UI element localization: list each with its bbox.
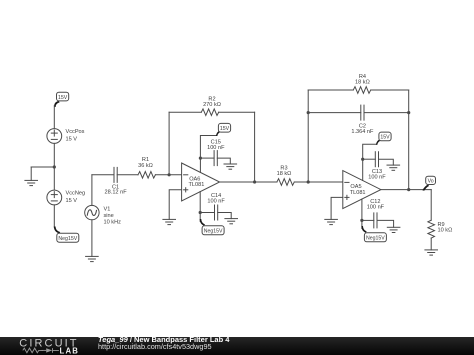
- wire R1 to OA6 inverting input: [155, 174, 181, 176]
- wire R2 right leg: [254, 112, 256, 182]
- wire to C14: [200, 212, 214, 214]
- op-amp OA5: [343, 171, 381, 209]
- voltage source V1 (sine): [85, 205, 99, 219]
- label R2 270 kOhm: [203, 96, 221, 108]
- ground (C12): [387, 227, 400, 232]
- svg-text:TL081: TL081: [350, 190, 366, 196]
- node junction (C2 right): [407, 111, 410, 114]
- ground (R9): [425, 250, 438, 255]
- wire V1 to C1: [92, 174, 114, 176]
- label R1 36 kOhm: [138, 157, 153, 169]
- svg-text:Neg15V: Neg15V: [58, 236, 77, 242]
- op-amp OA6: [182, 163, 220, 201]
- wire R4 right leg: [408, 90, 410, 190]
- svg-text:1.364 nF: 1.364 nF: [351, 129, 374, 135]
- wire to C12: [362, 219, 374, 221]
- ground (supply midpoint): [25, 167, 38, 186]
- capacitor C15: [214, 151, 217, 166]
- node junction (R3 / R4 / C2): [307, 180, 310, 183]
- wire OA5 V+ pin: [363, 144, 377, 180]
- svg-text:270 kΩ: 270 kΩ: [203, 102, 221, 108]
- svg-text:36 kΩ: 36 kΩ: [138, 163, 153, 169]
- net flag 15V (OA5): [376, 132, 391, 145]
- node junction (OA5 V- / C12): [360, 219, 363, 222]
- wire flag to VccPos: [53, 106, 55, 129]
- svg-text:18 kΩ: 18 kΩ: [355, 80, 370, 86]
- ground (OA5 +): [325, 219, 338, 224]
- ground (OA6 +): [163, 219, 176, 224]
- svg-text:100 nF: 100 nF: [368, 174, 386, 180]
- net flag Neg15V (supply): [54, 227, 79, 243]
- label C15 100 nF: [207, 140, 225, 151]
- wire R4 top left: [308, 89, 353, 91]
- wire R4 top right: [371, 89, 409, 91]
- svg-text:18 kΩ: 18 kΩ: [277, 171, 292, 177]
- resistor R3: [277, 179, 294, 186]
- label VccNeg 15 V: [66, 190, 86, 204]
- node junction (OA6 out / R2): [253, 180, 256, 183]
- svg-text:15 V: 15 V: [66, 136, 78, 142]
- label C13 100 nF: [368, 169, 386, 180]
- ground (C13): [387, 165, 400, 170]
- wire V1 down to ground: [91, 220, 93, 257]
- svg-text:15 V: 15 V: [66, 198, 78, 204]
- capacitor C12: [374, 213, 377, 228]
- node junction (OA5 V+ / C13): [361, 158, 364, 161]
- wire C1 to R1: [117, 174, 138, 176]
- net flag 15V (VccPos supply): [54, 92, 69, 107]
- label OA6 TL081: [189, 176, 205, 188]
- capacitor C13: [375, 152, 378, 167]
- wire C15 to ground: [217, 158, 230, 164]
- svg-text:100 nF: 100 nF: [207, 145, 225, 151]
- footer title text: [98, 336, 229, 351]
- wire OA5 V- pin: [361, 199, 363, 228]
- svg-text:Neg15V: Neg15V: [366, 236, 385, 242]
- voltage source VccNeg: [47, 190, 62, 205]
- svg-text:VccNeg: VccNeg: [66, 190, 86, 196]
- CircuitLab logo: [0, 337, 95, 355]
- node junction (R1/R2/OA6-): [168, 173, 171, 176]
- label C1 28.12 nF: [105, 184, 128, 195]
- wire V1 up: [91, 175, 93, 206]
- label C2 1.364 nF: [351, 124, 374, 135]
- svg-text:TL081: TL081: [189, 182, 205, 188]
- resistor R2: [201, 109, 218, 116]
- wire OA6 noninverting input: [169, 190, 181, 220]
- wire C13 to ground: [379, 159, 394, 165]
- wire C12 to ground: [377, 220, 394, 227]
- svg-text:LAB: LAB: [60, 347, 80, 355]
- wire R2 top left: [169, 111, 201, 113]
- net flag Neg15V (OA6): [200, 219, 224, 235]
- footer bar: [0, 337, 474, 355]
- resistor R1: [138, 172, 155, 179]
- label V1 sine 10 kHz: [104, 207, 122, 226]
- node junction (C2 left): [307, 111, 310, 114]
- wire Vo to R9: [430, 190, 432, 221]
- resistor R4: [353, 87, 370, 94]
- capacitor C1: [114, 167, 117, 182]
- wire R2 top right: [219, 111, 255, 113]
- label R9 10 kOhm: [438, 222, 453, 234]
- node junction (OA5 out / R4 / C2): [407, 188, 410, 191]
- node junction (OA6 V+ / C15): [199, 157, 202, 160]
- label R4 18 kOhm: [355, 74, 370, 86]
- wire R3 to OA5 inverting input: [294, 181, 343, 183]
- wire R2 left leg: [168, 112, 170, 175]
- svg-text:15V: 15V: [220, 126, 230, 132]
- ground (V1): [86, 256, 99, 261]
- wire to C13: [363, 158, 376, 160]
- capacitor C2: [361, 105, 364, 120]
- label VccPos 15 V: [66, 129, 85, 143]
- svg-text:V1: V1: [104, 207, 111, 213]
- wire OA6 V+ pin: [200, 136, 216, 173]
- label OA5 TL081: [350, 184, 366, 196]
- svg-text:Neg15V: Neg15V: [204, 229, 223, 235]
- svg-text:sine: sine: [104, 213, 114, 219]
- net flag 15V (OA6): [216, 123, 231, 136]
- svg-text:10 kΩ: 10 kΩ: [438, 227, 453, 233]
- wire C14 to ground: [218, 213, 232, 219]
- voltage source VccPos: [47, 129, 62, 144]
- svg-text:15V: 15V: [58, 95, 68, 101]
- node junction (OA6 V- / C14): [199, 211, 202, 214]
- label C12 100 nF: [367, 199, 385, 210]
- resistor R9: [428, 220, 435, 238]
- net flag Neg15V (OA5): [361, 226, 386, 242]
- wire VccPos to VccNeg: [53, 143, 55, 190]
- wire to C15: [200, 157, 214, 159]
- wire R4 left leg: [307, 90, 309, 182]
- wire OA5 output: [381, 189, 431, 191]
- wire OA6 V- pin: [199, 192, 201, 222]
- svg-text:100 nF: 100 nF: [367, 205, 385, 211]
- svg-text:VccPos: VccPos: [66, 129, 85, 135]
- node junction: [53, 165, 56, 168]
- ground (C15): [224, 164, 237, 169]
- svg-text:10 kHz: 10 kHz: [104, 220, 122, 226]
- wire R9 to ground: [430, 238, 432, 250]
- ground (C14): [225, 219, 238, 224]
- svg-text:Vo: Vo: [428, 179, 434, 185]
- capacitor C14: [215, 205, 218, 220]
- svg-text:28.12 nF: 28.12 nF: [105, 190, 128, 196]
- net flag Vo (output): [422, 176, 435, 191]
- label R3 18 kOhm: [277, 165, 292, 177]
- wire VccNeg to Neg15V flag: [53, 205, 55, 227]
- svg-text:15V: 15V: [380, 135, 390, 141]
- wire junction to ground: [31, 166, 54, 168]
- svg-text:100 nF: 100 nF: [207, 198, 225, 204]
- wire OA5 noninverting input: [331, 197, 343, 219]
- wire OA6 output to R3: [220, 181, 277, 183]
- label C14 100 nF: [207, 193, 225, 204]
- wire C2 right: [364, 112, 409, 114]
- wire C2 left: [308, 112, 361, 114]
